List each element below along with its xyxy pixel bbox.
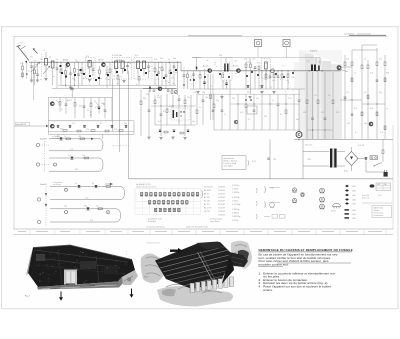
paragraph word underlines [277, 262, 351, 264]
right vert 2 [351, 50, 353, 62]
svg-text:50µ: 50µ [379, 59, 382, 61]
svg-text:Si 0,1A: Si 0,1A [358, 144, 365, 147]
stage4 drop 2 [158, 62, 160, 72]
det vert 2 [148, 90, 150, 110]
photo2 right hand [231, 241, 252, 269]
right vert 6 [384, 55, 386, 62]
Fi3 coil A [137, 61, 140, 69]
svg-text:Netztrafo: Netztrafo [305, 144, 312, 147]
box2 comps [57, 125, 60, 127]
svg-text:C 16 1n: C 16 1n [232, 201, 238, 203]
svg-text:C12: C12 [72, 123, 75, 125]
svg-text:25µ: 25µ [160, 58, 163, 60]
Q1 extra drop [81, 62, 83, 70]
mid h-link 104 [230, 103, 300, 105]
photo1 chassis body [28, 245, 135, 287]
svg-text:alle Spannungen: alle Spannungen [210, 219, 222, 221]
svg-text:R34: R34 [219, 55, 222, 57]
left stub arrow [46, 125, 49, 127]
det vert 4 [160, 95, 162, 114]
svg-text:2,2k: 2,2k [193, 92, 196, 94]
right transistor Q7 [369, 122, 373, 126]
pinout row3 sockets [155, 208, 157, 211]
psu wire bot [303, 165, 330, 167]
svg-text:1N60: 1N60 [352, 214, 356, 216]
svg-text:Fi 1 452 kHz: Fi 1 452 kHz [112, 55, 122, 57]
svg-text:5n: 5n [364, 59, 366, 61]
svg-text:220: 220 [346, 59, 349, 61]
service note box [222, 156, 246, 170]
driver transformer [311, 65, 313, 72]
svg-text:Kabel A: Kabel A [40, 138, 47, 141]
stage4 drop 6 [173, 62, 175, 66]
schematic frame left border [13, 36, 15, 229]
svg-text:Technische Daten: Technische Daten [146, 242, 160, 245]
svg-text:C 14 25µ: C 14 25µ [232, 192, 239, 194]
AF3 drops [245, 62, 247, 64]
svg-text:AF117: AF117 [99, 58, 104, 61]
fine print marks [66, 73, 67, 76]
svg-text:0528.069: 0528.069 [218, 187, 225, 189]
title strip lower rule [14, 234, 394, 236]
svg-text:8,2k: 8,2k [257, 63, 260, 65]
right vert 5 [376, 48, 378, 62]
svg-text:AC125: AC125 [203, 64, 209, 67]
svg-text:Stand 1.4.: Stand 1.4. [362, 196, 370, 199]
box1 drop a [59, 98, 61, 102]
svg-text:0528.069: 0528.069 [218, 201, 225, 203]
photo1 battery box [64, 270, 77, 285]
svg-text:Fig. 4: Fig. 4 [25, 296, 30, 298]
Fi2 link [116, 59, 123, 61]
transistor Q2 [102, 63, 106, 67]
svg-text:R34: R34 [84, 205, 87, 207]
Fi2 cap [127, 62, 129, 65]
svg-text:25µ: 25µ [216, 100, 219, 102]
svg-text:0,5: 0,5 [163, 111, 166, 113]
demod wire [143, 88, 177, 90]
svg-text:10n: 10n [82, 155, 85, 157]
svg-text:220: 220 [264, 116, 267, 118]
bridge wires [358, 158, 366, 160]
vertical feed x177 [176, 62, 178, 95]
svg-text:4,7k: 4,7k [272, 80, 275, 82]
band vert 4 [324, 72, 326, 118]
AF2 drops [222, 80, 224, 89]
mid lower rail [214, 129, 300, 131]
svg-text:C 18 10µ: C 18 10µ [232, 209, 239, 211]
det comps row2 [159, 129, 162, 131]
drop x102 to loops [102, 134, 104, 139]
det grounds [147, 136, 150, 138]
vert x208 [207, 74, 209, 89]
band vert 3 [317, 72, 319, 100]
photo2 connector row [190, 283, 194, 293]
svg-text:0,1: 0,1 [165, 81, 168, 83]
svg-text:Sabine TK Bestell-Nr. 0528: Sabine TK Bestell-Nr. 0528 [186, 226, 208, 229]
svg-text:0528: 0528 [377, 184, 381, 186]
title strip upper rule [14, 228, 394, 230]
Q1 base drop [74, 62, 76, 68]
svg-text:1N60: 1N60 [352, 204, 356, 206]
svg-text:8,2k: 8,2k [154, 59, 157, 61]
svg-text:0,1: 0,1 [68, 155, 71, 157]
loop B arrows [45, 193, 47, 196]
Q1 collector drop [70, 67, 72, 74]
transistor Q5b [271, 69, 275, 73]
det dark bars [173, 110, 175, 118]
vertical feed x128 [128, 71, 130, 179]
AF4 dots [262, 70, 263, 71]
trans stage drop2 [187, 71, 189, 74]
ground rail left [52, 87, 176, 89]
svg-text:1N60: 1N60 [352, 210, 356, 212]
psu switch [374, 163, 380, 166]
photo2 right hand dark [238, 250, 249, 261]
AF1 diode [196, 66, 198, 71]
mixer resistor [60, 62, 62, 69]
psu divider line [294, 138, 393, 140]
svg-text:arrière.: arrière. [263, 288, 273, 292]
svg-text:C12: C12 [96, 206, 99, 208]
loop A2 comps [71, 157, 74, 160]
var-cap arrow 2 [43, 66, 50, 74]
svg-text:0528.069: 0528.069 [218, 215, 225, 217]
bus step wire [180, 62, 182, 71]
svg-text:C 15 50µ: C 15 50µ [232, 197, 239, 199]
schematic frame right border [392, 125, 394, 229]
frame top darker segment A [188, 35, 242, 37]
svg-text:C12: C12 [346, 92, 349, 94]
transistor Q1 [66, 63, 70, 67]
stage4 drop 1 [154, 62, 156, 68]
svg-text:C 12 10n: C 12 10n [232, 185, 239, 187]
box1 drop b [65, 98, 67, 105]
det vert 3 [154, 95, 156, 100]
box1 drop d [83, 98, 85, 107]
transistor Q4 [208, 69, 212, 73]
svg-text:1n: 1n [168, 59, 170, 61]
bus junction dots [112, 62, 113, 63]
svg-text:220: 220 [79, 106, 82, 108]
driver risers [315, 58, 317, 65]
right row3 [367, 95, 369, 99]
svg-text:100: 100 [173, 58, 176, 60]
box1 drop g [104, 98, 106, 111]
svg-text:0,1: 0,1 [178, 121, 181, 123]
svg-text:Transistoren-Schaltung: Transistoren-Schaltung [146, 226, 165, 229]
AF2b can [262, 59, 271, 79]
photo1 bottom strip [37, 277, 124, 290]
trimmer drop [56, 62, 58, 68]
component blobs AF band [193, 79, 195, 81]
right top links [352, 49, 377, 51]
lamp feed wire [192, 57, 320, 59]
dial lamp 1 [255, 40, 262, 47]
svg-text:AC 125: AC 125 [204, 196, 210, 199]
input drop 2 [34, 62, 36, 70]
Fi1 ground [88, 79, 91, 81]
AF3 riser [249, 58, 251, 63]
HF bus wire [29, 61, 181, 63]
right h-link 104 [362, 103, 385, 105]
svg-text:0528.069: 0528.069 [218, 211, 225, 213]
det vert pair right [210, 74, 212, 120]
box transistor Q10 [51, 124, 55, 128]
svg-text:R34: R34 [303, 112, 306, 114]
svg-text:DEMONTAGE DU CHASSIS ET REMPLA: DEMONTAGE DU CHASSIS ET REMPLACEMENT DU … [259, 248, 353, 252]
svg-text:0528.069: 0528.069 [218, 190, 225, 192]
drop x58 to loops [57, 134, 59, 139]
photo1 right corner piece [122, 270, 138, 285]
photo1 chassis details [38, 258, 120, 268]
input drop 1 [31, 62, 33, 66]
volume pot [174, 91, 177, 94]
det rail 106 [154, 105, 196, 107]
svg-text:4,7k: 4,7k [380, 132, 383, 134]
mains transformer [330, 149, 332, 168]
legend small rects [272, 215, 278, 219]
svg-text:470: 470 [244, 59, 247, 61]
svg-text:C 20 220p: C 20 220p [232, 216, 240, 218]
svg-text:AF 117: AF 117 [204, 193, 209, 196]
ferrite coil L1 [45, 52, 47, 59]
svg-text:C81: C81 [273, 159, 276, 161]
svg-text:Schwarzwald: Schwarzwald [374, 213, 384, 215]
Q1 ground [69, 86, 72, 88]
dashed link lower [112, 145, 130, 147]
Q2 bypass drop [106, 66, 108, 73]
svg-text:100: 100 [347, 123, 350, 125]
mid dark pair [245, 99, 247, 101]
svg-text:100: 100 [205, 97, 208, 99]
loop A terminals [36, 143, 39, 146]
svg-text:0,5: 0,5 [105, 79, 108, 81]
svg-text:Kabel B: Kabel B [40, 184, 47, 186]
vertical feed x120 [119, 79, 121, 152]
socket icon c2 [320, 197, 325, 202]
socket icon b1 [301, 193, 304, 196]
title strip entries [18, 230, 26, 233]
loop A1 diode [60, 137, 63, 140]
det vert 1 [140, 90, 142, 101]
antenna trim arrow [33, 49, 38, 54]
svg-text:470: 470 [157, 97, 160, 99]
order table [376, 183, 391, 191]
svg-text:1n: 1n [386, 108, 388, 110]
output transistor Q6 [337, 66, 341, 70]
svg-text:220: 220 [40, 59, 43, 61]
osc coil L2 [51, 61, 54, 68]
svg-text:0,1: 0,1 [248, 119, 251, 121]
AF1 riser [196, 58, 198, 67]
mid rail grounds [196, 91, 199, 93]
photo2 connector pins [190, 284, 192, 291]
loop B1 circ [65, 188, 68, 191]
socket icon a1 [292, 188, 296, 192]
svg-text:1N60: 1N60 [352, 218, 356, 220]
band vert 5 [332, 72, 334, 100]
svg-text:2,2k: 2,2k [33, 72, 36, 74]
box1 diag wires [56, 100, 60, 104]
band vert 2 [312, 72, 314, 118]
photo1 speckle texture [64, 254, 65, 256]
dial lamp 2 [283, 40, 290, 47]
svg-text:0,1: 0,1 [280, 79, 283, 81]
Q2 emitter drop [99, 66, 101, 70]
det vert 11 [202, 95, 204, 100]
svg-text:Fi 2: Fi 2 [135, 55, 138, 57]
svg-text:Kabel B: Kabel B [310, 51, 318, 53]
AF1 cap drop [193, 71, 195, 74]
photo1 bottom strip detail [40, 283, 118, 288]
svg-text:10n: 10n [286, 80, 289, 82]
right h-link 100 [340, 99, 362, 101]
right row5 [384, 126, 386, 130]
toner shading band [299, 50, 312, 139]
Fi1 cap [92, 62, 94, 69]
svg-text:25µ: 25µ [247, 92, 250, 94]
transistor outline icon b [333, 203, 341, 206]
svg-text:AC 151: AC 151 [204, 203, 210, 206]
ground above box [70, 89, 74, 91]
photo2 left hand [141, 254, 167, 284]
band h-link [307, 129, 333, 131]
psu wire top [303, 151, 330, 153]
svg-text:1N60: 1N60 [352, 195, 356, 197]
svg-text:1n: 1n [224, 114, 226, 116]
svg-text:gegen Masse: gegen Masse [210, 221, 220, 223]
svg-text:0,5: 0,5 [328, 95, 331, 97]
pinout row1 sockets [141, 193, 143, 196]
ant net res2 [22, 73, 24, 77]
photo2 top dark piece [196, 242, 224, 250]
svg-text:069: 069 [384, 184, 387, 186]
det dashed box [171, 108, 190, 120]
demod diode [149, 86, 151, 87]
det vert 7 [178, 95, 180, 99]
photo1 top edge light [33, 245, 132, 260]
AF3 ecaps [247, 85, 250, 87]
Fi2 coil B [121, 61, 124, 69]
svg-text:0528.069: 0528.069 [218, 197, 225, 199]
svg-text:5n: 5n [92, 183, 94, 185]
svg-text:an Tonband: an Tonband [52, 136, 60, 138]
right row4 [361, 112, 363, 116]
IF can Fi2 [112, 58, 132, 80]
stamp mark [370, 184, 375, 187]
svg-text:470: 470 [321, 112, 324, 114]
photo2 left hand shading [145, 257, 160, 276]
svg-text:Poser l'appareil sur son dos e: Poser l'appareil sur son dos et soulever… [263, 285, 331, 289]
svg-text:0528.069: 0528.069 [218, 204, 225, 206]
svg-text:10n: 10n [30, 57, 33, 59]
svg-text:1k: 1k [49, 57, 51, 59]
svg-text:2,2k: 2,2k [85, 198, 88, 200]
Fi3 coil B [143, 61, 146, 69]
AF1 ecap drop [204, 71, 206, 82]
symbol key glyphs [345, 185, 349, 188]
svg-text:2N 270: 2N 270 [204, 211, 210, 213]
demod res [171, 90, 173, 94]
transistor Q5 [237, 69, 241, 73]
loop B1 arrow [110, 183, 113, 185]
stage4 drop 5 [169, 62, 171, 70]
svg-text:Kabel A 8730: Kabel A 8730 [16, 123, 26, 126]
psu resistor [382, 139, 384, 150]
svg-text:4,7k: 4,7k [158, 121, 161, 123]
svg-text:C 21 5µ: C 21 5µ [232, 220, 238, 222]
svg-text:AC 117 K: AC 117 K [204, 207, 212, 210]
photo2 gripped corner [228, 252, 248, 267]
schematic frame top border [14, 35, 388, 37]
AF4 drops [265, 71, 267, 74]
svg-text:8,2k: 8,2k [370, 108, 373, 110]
antenna rod [18, 46, 30, 61]
svg-text:50µ: 50µ [296, 119, 299, 121]
svg-text:1n: 1n [199, 107, 201, 109]
Q6 wires [324, 70, 337, 72]
det vert 10 [196, 95, 198, 110]
svg-text:1N60: 1N60 [352, 186, 356, 188]
svg-text:8,2k: 8,2k [169, 106, 172, 108]
svg-text:1N60: 1N60 [352, 200, 356, 202]
svg-text:AC126: AC126 [233, 64, 239, 67]
svg-text:1k: 1k [183, 68, 185, 70]
right vert 1 [344, 55, 346, 62]
photo1 arrow right [131, 289, 133, 296]
trans stage drop1 [183, 71, 185, 75]
Fi2 ground [122, 80, 125, 82]
det vert 6 [172, 95, 174, 108]
svg-text:220: 220 [291, 77, 294, 79]
trans stage blob [183, 84, 185, 86]
loop B terminals [37, 198, 40, 201]
svg-text:50µ: 50µ [318, 62, 321, 64]
right row2 [351, 78, 353, 82]
fuse [370, 156, 378, 160]
svg-text:C 17 100p: C 17 100p [232, 204, 240, 206]
tuning gang arrow [31, 62, 40, 72]
mid transistor Q11 [234, 120, 237, 123]
svg-text:R34: R34 [72, 79, 75, 81]
tuning dashed link [41, 54, 43, 78]
psu box left [302, 139, 304, 179]
svg-text:Fig. 5: Fig. 5 [144, 277, 149, 279]
svg-text:C12: C12 [314, 95, 317, 97]
svg-text:1N60: 1N60 [352, 191, 356, 193]
svg-text:5n: 5n [87, 110, 89, 112]
svg-text:2,2k: 2,2k [370, 73, 373, 75]
svg-text:100: 100 [264, 79, 267, 81]
band vert 1 [306, 72, 308, 100]
photo2 right edge dark [222, 257, 234, 284]
svg-text:50µ: 50µ [202, 92, 205, 94]
det rail 125 [155, 124, 196, 126]
svg-text:5n: 5n [280, 114, 282, 116]
stage box 2 [49, 121, 135, 135]
Fi3 cap [148, 62, 150, 66]
Q2 base drop [109, 62, 111, 69]
det vert 9 [190, 95, 192, 125]
vertical feed x112 [111, 79, 113, 131]
svg-text:0528.069: 0528.069 [218, 194, 225, 196]
svg-text:10n: 10n [364, 123, 367, 125]
ground rail mid2 [196, 93, 300, 95]
loop A1 [49, 139, 103, 151]
svg-text:1k: 1k [272, 100, 274, 102]
AF2 riser [225, 58, 227, 64]
